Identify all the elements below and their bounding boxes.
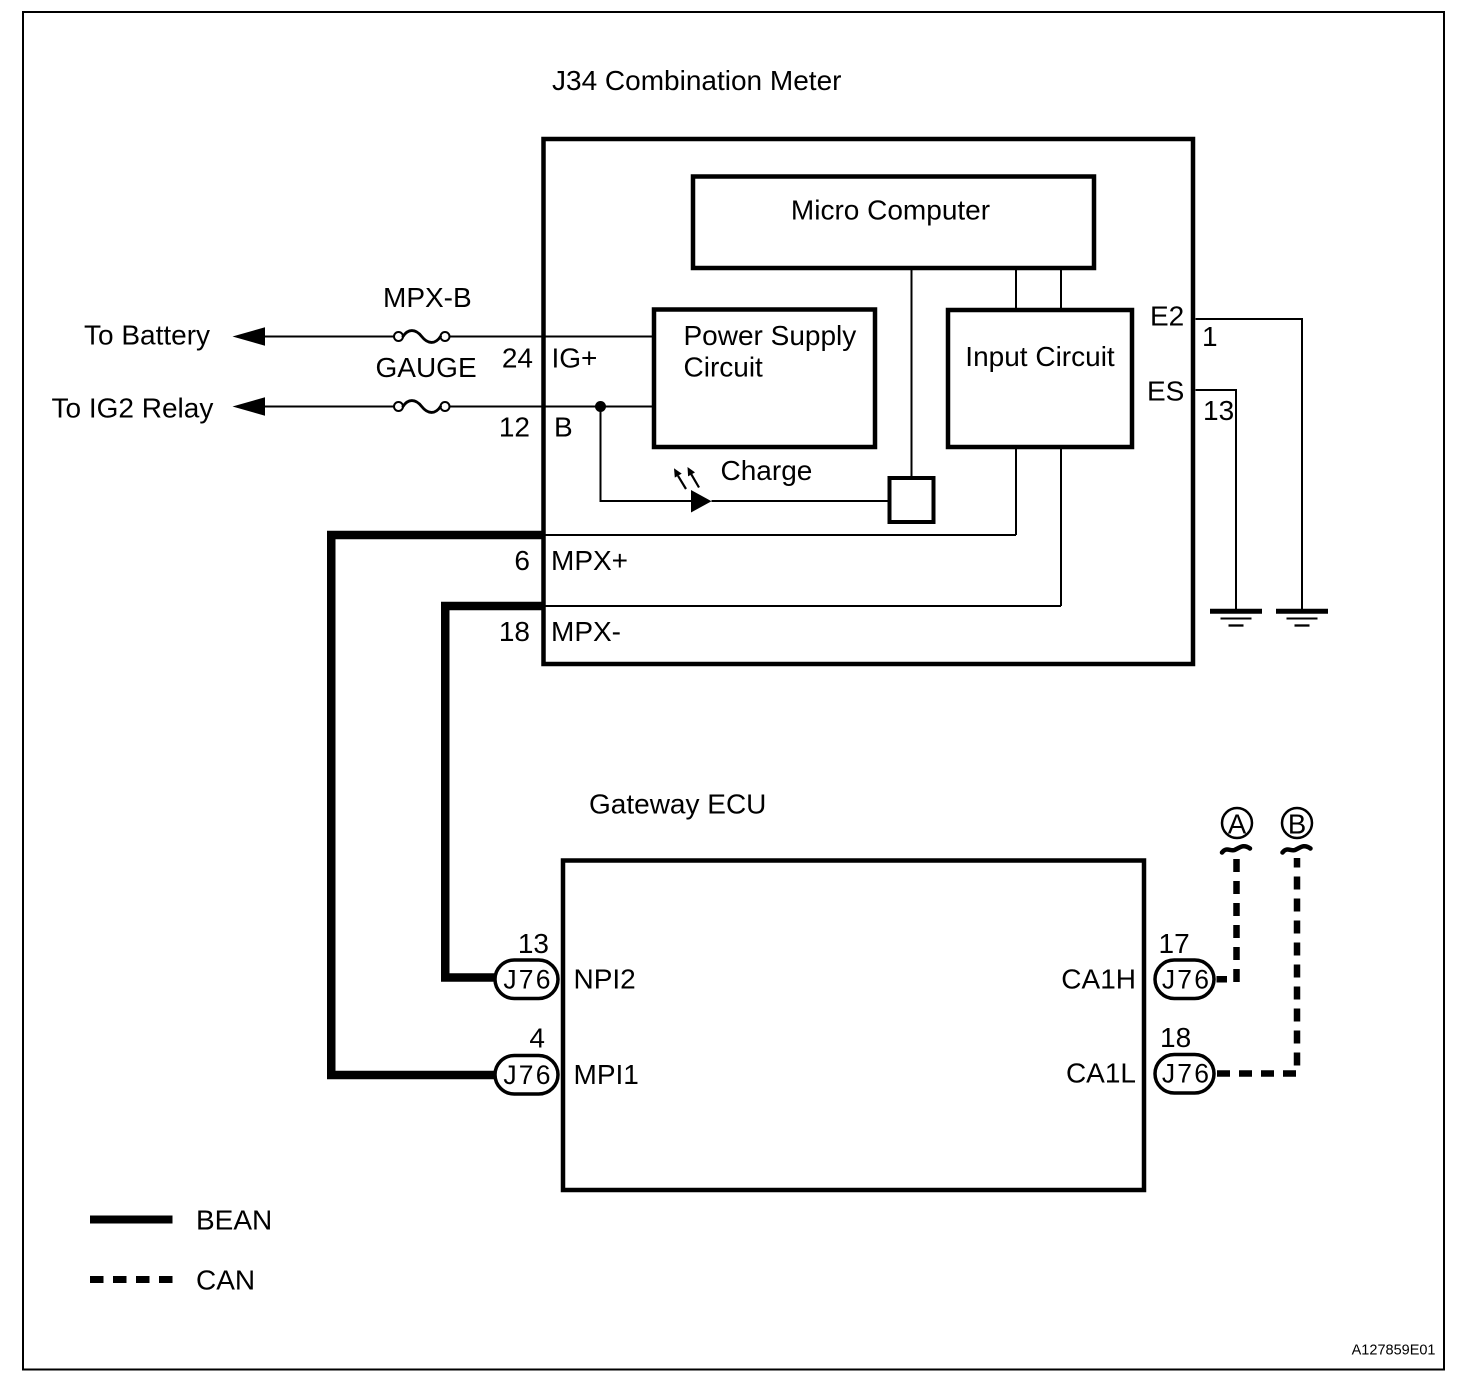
pin 24 IG+ (502, 343, 598, 374)
fuse MPX-B (383, 282, 472, 342)
svg-text:Gateway ECU: Gateway ECU (589, 789, 766, 820)
svg-text:Power Supply: Power Supply (684, 320, 857, 351)
wire CAN A vertical (1233, 858, 1240, 982)
wire BEAN MPX+ to MPI1 (331, 535, 545, 1075)
wire charge lamp to driver box (712, 500, 888, 502)
svg-text:J76: J76 (503, 1060, 552, 1090)
fuse GAUGE (376, 352, 477, 412)
svg-text:MPX+: MPX+ (551, 545, 628, 576)
wire BEAN MPX- to NPI2 (445, 606, 545, 978)
wire IG2 arrow to fuse GAUGE (244, 406, 394, 408)
svg-text:18: 18 (1160, 1022, 1191, 1053)
connector J76 pin 17 CA1H (1061, 928, 1214, 999)
charge indicator LED (674, 467, 712, 513)
svg-text:CAN: CAN (196, 1265, 255, 1296)
svg-text:NPI2: NPI2 (574, 964, 636, 995)
svg-text:B: B (1288, 809, 1306, 840)
wire pin E2 to ground (1196, 319, 1303, 610)
svg-text:GAUGE: GAUGE (376, 352, 477, 383)
svg-text:J76: J76 (503, 965, 552, 995)
wire fuse GAUGE to pin B (450, 406, 655, 408)
svg-text:A127859E01: A127859E01 (1352, 1343, 1436, 1359)
pin ES 13 (1147, 376, 1234, 427)
wire micro computer to input circuit 1 (1015, 270, 1017, 310)
svg-text:1: 1 (1202, 321, 1218, 352)
ground ES (1210, 611, 1262, 625)
svg-text:J34 Combination Meter: J34 Combination Meter (552, 65, 841, 96)
svg-text:4: 4 (529, 1023, 545, 1054)
svg-text:Input Circuit: Input Circuit (965, 341, 1115, 372)
block Power Supply Circuit (654, 310, 875, 448)
wire input circuit to MPX- (1060, 447, 1062, 606)
arrow to IG2 relay (233, 397, 266, 415)
connector J76 pin 13 NPI2 (495, 928, 636, 999)
svg-text:17: 17 (1159, 928, 1190, 959)
svg-text:J76: J76 (1162, 1059, 1211, 1089)
svg-text:13: 13 (1203, 395, 1234, 426)
node A (1222, 808, 1252, 840)
wire input circuit to MPX+ (1015, 447, 1017, 535)
svg-text:Circuit: Circuit (684, 352, 764, 383)
connector J76 pin 18 CA1L (1066, 1022, 1214, 1093)
wire micro computer to driver box (911, 270, 913, 476)
junction node B (595, 401, 606, 412)
pin 6 MPX+ (514, 545, 628, 576)
wire MPX- internal (545, 605, 1061, 607)
block Gateway ECU (563, 789, 1144, 1191)
svg-text:6: 6 (514, 545, 530, 576)
block Micro Computer (693, 177, 1094, 269)
node B (1282, 808, 1312, 840)
svg-text:Micro Computer: Micro Computer (791, 195, 990, 226)
svg-text:13: 13 (518, 928, 549, 959)
svg-text:24: 24 (502, 343, 533, 374)
svg-text:MPI1: MPI1 (574, 1059, 639, 1090)
svg-text:J76: J76 (1162, 965, 1211, 995)
svg-text:18: 18 (499, 616, 530, 647)
svg-text:BEAN: BEAN (196, 1205, 272, 1236)
wire MPX+ internal (545, 534, 1016, 536)
wire junction B to charge lamp (601, 407, 692, 502)
svg-text:A: A (1228, 809, 1247, 840)
wire fuse MPX-B to pin IG+ (450, 336, 655, 338)
wire CAN CA1L to B (1217, 858, 1297, 1074)
connector J76 pin 4 MPI1 (495, 1023, 639, 1095)
break squiggle A (1222, 846, 1250, 852)
svg-text:CA1L: CA1L (1066, 1058, 1136, 1089)
svg-text:MPX-: MPX- (551, 616, 621, 647)
pin E2 1 (1150, 301, 1218, 353)
svg-text:12: 12 (499, 412, 530, 443)
legend CAN (90, 1265, 255, 1296)
svg-text:B: B (554, 412, 573, 443)
wire battery arrow to fuse MPX-B (244, 336, 394, 338)
pin 18 MPX- (499, 616, 621, 647)
ground E2 (1276, 611, 1328, 625)
driver box (890, 478, 934, 522)
svg-text:Charge: Charge (721, 455, 813, 486)
svg-text:To IG2 Relay: To IG2 Relay (52, 393, 214, 424)
arrow to battery (233, 327, 266, 345)
wire pin ES to ground (1196, 390, 1237, 610)
svg-text:E2: E2 (1150, 301, 1184, 332)
block Input Circuit (948, 310, 1132, 447)
pin 12 B (499, 412, 573, 443)
block J34 Combination Meter (544, 65, 1194, 664)
break squiggle B (1283, 846, 1311, 852)
wire CAN stub CA1H (1217, 976, 1228, 983)
wire micro computer to input circuit 2 (1060, 270, 1062, 310)
legend BEAN (90, 1205, 272, 1236)
svg-text:CA1H: CA1H (1061, 964, 1136, 995)
svg-text:MPX-B: MPX-B (383, 282, 472, 313)
svg-text:ES: ES (1147, 376, 1184, 407)
svg-text:IG+: IG+ (552, 343, 598, 374)
svg-text:To Battery: To Battery (84, 320, 210, 351)
